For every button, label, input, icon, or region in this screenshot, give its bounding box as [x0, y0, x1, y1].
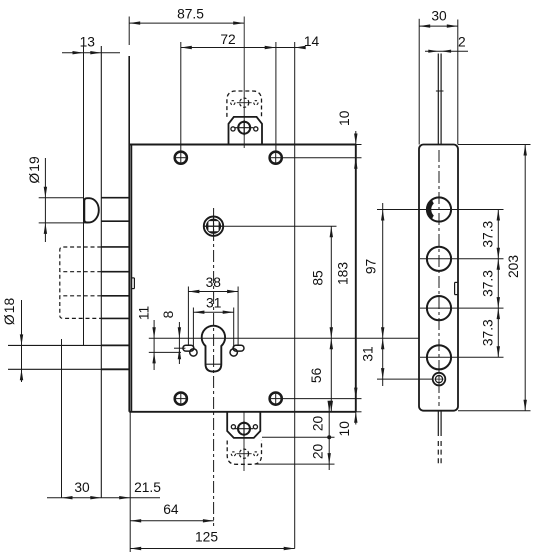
dim 30 (edge) line [419, 25, 458, 27]
top tab hidden hole left [231, 101, 235, 105]
svg-text:10: 10 [337, 421, 352, 437]
follower cross [204, 225, 223, 227]
ext edge top right [458, 144, 531, 146]
svg-text:Ø 18: Ø 18 [2, 298, 17, 326]
bolt hole 2 [427, 247, 451, 271]
svg-text:97: 97 [364, 259, 379, 274]
strike plate tick [436, 90, 444, 92]
top tab screw [235, 120, 253, 135]
ext dia19 bottom [39, 222, 88, 224]
bolt 4 head at faceplate [101, 344, 129, 346]
ext tab hidden bottom [256, 463, 335, 465]
ext case bottom right [356, 411, 362, 413]
bottom tab screw [235, 421, 253, 436]
faceplate retaining notch (left view) [133, 278, 135, 289]
ext hole2 axis [420, 258, 504, 260]
bolt 1 head at faceplate [101, 197, 129, 199]
faceplate front edge [128, 56, 130, 412]
bolt hole 3 [427, 296, 451, 320]
dim 97/31 line [382, 203, 384, 386]
ext 31 left [192, 308, 194, 349]
dim 11 line [153, 320, 155, 370]
svg-text:203: 203 [506, 255, 521, 278]
edge view centerline [438, 150, 440, 406]
euro cylinder profile [202, 326, 225, 372]
case screw bottom-right [270, 393, 282, 405]
top tab hidden screw cross [237, 102, 252, 104]
dim 13 line [62, 52, 120, 54]
bottom tab axis centerline [243, 412, 245, 471]
top tab axis centerline [243, 17, 245, 149]
dim 203 line [524, 145, 526, 411]
strike plate upper (2mm) [437, 54, 439, 145]
case screw top-right [270, 152, 282, 164]
ext 30 right [457, 20, 459, 145]
cylinder stem chord [206, 363, 222, 365]
ext edge bottom right [458, 410, 531, 412]
ext dia19 top [39, 197, 83, 199]
top tab hidden position (dashed) [227, 91, 262, 117]
follower circle [204, 217, 223, 236]
svg-text:2: 2 [458, 35, 466, 50]
svg-text:20: 20 [311, 444, 326, 460]
fixing slot left circle [190, 349, 197, 356]
faceplate extension line above (87.5 ref) [128, 17, 130, 46]
faceplate edge view outline [419, 145, 458, 411]
dim 72 line [181, 47, 276, 49]
bolts 2-3 thrown (hidden, dashed) [60, 247, 102, 318]
svg-text:56: 56 [309, 368, 324, 384]
strike plate lower [437, 411, 439, 436]
bottom tab hidden screw (dashed) [239, 449, 248, 458]
dim 14 line [276, 47, 303, 49]
ext 30 left / case edge extension [418, 19, 420, 145]
bottom tab small hole left [231, 425, 235, 429]
follower square hole [208, 221, 218, 231]
bottom tab hidden screw cross [236, 453, 251, 455]
dim 2 line [425, 50, 468, 52]
ext case top right [356, 144, 362, 146]
svg-text:31: 31 [361, 346, 376, 361]
ext follower axis [204, 225, 337, 227]
dim dia18 line [21, 300, 23, 382]
svg-text:21.5: 21.5 [134, 480, 161, 495]
ext hole3 axis [420, 307, 504, 309]
ext cylinder axis [149, 337, 419, 339]
svg-text:183: 183 [335, 262, 350, 285]
ext screw axis bottom [283, 398, 362, 400]
bottom tab hidden hole right [254, 452, 258, 456]
dim 125 line [130, 548, 295, 550]
svg-text:30: 30 [74, 480, 90, 495]
svg-text:14: 14 [304, 34, 320, 49]
bolt front line (13 ref) [83, 46, 85, 345]
ext slot obround axis [174, 347, 185, 349]
bottom tab hidden position (dashed) [227, 441, 261, 465]
edge view screw [433, 373, 446, 386]
ext screw axis (edge) [377, 378, 433, 380]
bottom tab hidden hole left [231, 452, 235, 456]
bolt 4 cylinder sides [8, 344, 101, 346]
bolt hole 1 crescent [428, 201, 434, 218]
dim 31 line [193, 311, 233, 313]
svg-text:125: 125 [195, 530, 218, 545]
dim 21.5/30 line [47, 497, 160, 499]
top tab hidden hole right [254, 101, 258, 105]
svg-text:13: 13 [80, 35, 96, 50]
dim 72 extension left [180, 42, 182, 145]
lock case outline [129, 144, 356, 146]
dim 20/20 line [328, 402, 330, 470]
svg-text:31: 31 [206, 295, 221, 310]
cylinder vertical centerline [213, 208, 215, 526]
ext screw axis top [283, 157, 362, 159]
svg-text:85: 85 [311, 270, 326, 286]
svg-text:72: 72 [220, 32, 235, 47]
svg-text:87.5: 87.5 [177, 7, 204, 22]
dim 183 line [355, 158, 357, 399]
svg-text:10: 10 [337, 110, 352, 126]
svg-text:8: 8 [161, 310, 176, 318]
svg-text:30: 30 [431, 9, 447, 24]
reference line right of screws [294, 42, 296, 549]
ext 31 right [233, 308, 235, 349]
bolt hole 4 [427, 345, 451, 369]
bottom mounting tab (solid) [227, 412, 260, 438]
top tab small hole right [254, 127, 258, 131]
dim 87.5 line [129, 22, 244, 24]
faceplate retaining notch (edge view) [454, 282, 456, 294]
dim 10 bottom line [355, 390, 357, 425]
ext 38 left [187, 287, 189, 346]
ext hole1 axis [377, 209, 504, 211]
svg-text:38: 38 [206, 275, 222, 290]
fixing slot right circle [230, 349, 237, 356]
bolt retracted face line [100, 46, 102, 498]
follower hub disc [206, 219, 221, 234]
bolt 2 head at faceplate [101, 246, 129, 248]
dim 38 line [188, 291, 238, 293]
top tab hidden screw (dashed) [240, 98, 249, 107]
case screw top-left [175, 152, 187, 164]
bolt thrown face line (30 ref) [61, 339, 63, 498]
extension line screw top-right [275, 42, 277, 151]
svg-text:Ø 19: Ø 19 [27, 156, 42, 184]
fixing slot left (obround) [183, 345, 194, 351]
dim 8 line [178, 322, 180, 364]
svg-text:20: 20 [311, 416, 326, 432]
ext 38 right [237, 287, 239, 346]
fixing slot right (obround) [233, 345, 244, 351]
svg-text:11: 11 [137, 306, 152, 320]
dim 10 top line [355, 131, 357, 171]
case screw bottom-left [175, 393, 187, 405]
bolt hole 1 [427, 197, 451, 221]
svg-text:64: 64 [163, 502, 179, 517]
top mounting tab (solid) [229, 117, 263, 145]
ext hole4 axis [420, 356, 504, 358]
ext tab solid bottom [262, 436, 335, 438]
ext slot circle axis [149, 351, 181, 353]
bolt 3 head at faceplate [101, 295, 129, 297]
dim 85/56 line [330, 226, 332, 412]
top tab small hole left [231, 127, 235, 131]
strike plate lower dashed [437, 441, 439, 465]
svg-text:37.3: 37.3 [481, 270, 496, 297]
faceplate extension line below case [129, 412, 131, 552]
bottom tab small hole right [253, 425, 257, 429]
dim 37.3 chain line [497, 210, 499, 358]
latch pin D-profile (bolt 1) [84, 198, 99, 222]
svg-text:37.3: 37.3 [481, 220, 496, 247]
svg-text:37.3: 37.3 [481, 319, 496, 346]
dim 64 line [130, 520, 214, 522]
dim dia19 line [44, 158, 46, 242]
